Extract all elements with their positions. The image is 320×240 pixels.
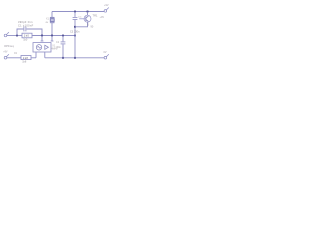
wire collector lead <box>87 12 89 16</box>
svg-text:90: 90 <box>91 26 94 29</box>
svg-text:0V: 0V <box>104 51 107 54</box>
svg-text:OPFreq: OPFreq <box>4 44 14 48</box>
wire C3 upper lead <box>74 12 76 17</box>
resistor R2 <box>21 56 31 60</box>
terminal +9V tick <box>106 8 109 11</box>
svg-text:1k8: 1k8 <box>23 56 29 60</box>
terminal 0V tick <box>106 54 109 57</box>
svg-text:X1: X1 <box>46 18 50 21</box>
svg-text:C2: C2 <box>56 41 60 44</box>
svg-text:4M: 4M <box>45 22 48 24</box>
transistor TR1 <box>84 15 91 22</box>
node emitter junction x75 <box>74 26 76 28</box>
wire C1 to corner <box>26 29 42 36</box>
svg-text:+9V: +9V <box>3 51 8 54</box>
pin tick x52 <box>51 40 54 42</box>
wire box pin bottom right <box>44 52 46 58</box>
svg-text:C3 100n: C3 100n <box>70 30 80 33</box>
wire main left <box>7 35 22 37</box>
node top x75 <box>74 11 76 13</box>
svg-text:390pF ±1n: 390pF ±1n <box>18 20 33 24</box>
terminal bottom-left circle <box>4 56 7 59</box>
terminal 0V circle <box>104 56 107 59</box>
oscillator sine <box>37 47 40 49</box>
oscillator circle <box>36 45 41 50</box>
node junction x52 <box>51 35 53 37</box>
svg-text:1k0: 1k0 <box>24 34 30 38</box>
pin tick x42 <box>41 40 44 42</box>
wire crystal top lead <box>51 12 53 18</box>
wire emitter lead <box>75 22 88 27</box>
node junction x75 main <box>74 35 76 37</box>
wire C3 lower lead <box>74 20 76 58</box>
capacitor C2 <box>61 42 66 44</box>
capacitor C1 <box>24 27 26 32</box>
wire pin drop x42 <box>41 36 43 41</box>
resistor R1 <box>22 33 32 38</box>
svg-text:1k0: 1k0 <box>23 39 28 42</box>
node junction x63 <box>62 35 64 37</box>
wire bottom rail <box>45 57 104 59</box>
wire C1 branch vertical <box>17 29 23 36</box>
svg-text:S: S <box>87 23 89 27</box>
svg-text:R2: R2 <box>14 52 18 55</box>
node bottom x75 <box>74 57 76 59</box>
wire bottom left <box>7 57 21 59</box>
svg-text:+9V: +9V <box>104 4 109 7</box>
capacitor C3 <box>73 17 78 19</box>
svg-text:1k8: 1k8 <box>22 61 27 64</box>
crystal X1 <box>50 17 55 22</box>
wire box pin bottom left <box>35 52 37 58</box>
svg-text:100n: 100n <box>56 46 62 49</box>
wire base lead <box>79 18 86 20</box>
terminal +9V circle <box>104 10 107 13</box>
node bottom x63 <box>62 57 64 59</box>
svg-text:10n: 10n <box>78 16 82 18</box>
wire C2 upper lead <box>62 36 64 42</box>
node main-C1 junction <box>16 35 18 37</box>
wire pin drop x52 <box>51 36 53 41</box>
oscillator box U1 <box>33 43 51 52</box>
wire top rail <box>52 11 104 13</box>
svg-text:TR1: TR1 <box>93 13 98 17</box>
wire C2 lower lead <box>62 44 64 57</box>
wire R2 to box <box>31 57 36 59</box>
terminal input tick <box>6 32 8 35</box>
node junction x42 <box>41 35 43 37</box>
svg-text:+9V: +9V <box>100 16 105 19</box>
wire main right <box>32 35 75 37</box>
wire crystal bottom lead <box>51 23 53 36</box>
node collector top <box>87 11 89 13</box>
terminal bottom-left tick <box>6 54 8 57</box>
terminal input circle <box>4 34 7 37</box>
oscillator buffer triangle <box>45 45 49 49</box>
svg-text:C1 ±100nF: C1 ±100nF <box>18 24 34 28</box>
